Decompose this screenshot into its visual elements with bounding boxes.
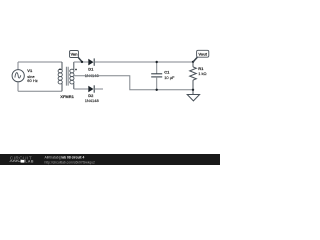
secondary lead top — [73, 62, 75, 70]
diode D1 — [88, 58, 94, 65]
primary winding — [58, 69, 62, 84]
node Van junction dot — [81, 61, 83, 63]
svg-text:C1: C1 — [164, 70, 170, 75]
svg-text:http://circuitlab.com/c6k97t9w: http://circuitlab.com/c6k97t9wkqu2 — [45, 160, 96, 164]
svg-text:LAB: LAB — [25, 159, 34, 163]
svg-text:10 µF: 10 µF — [164, 75, 175, 80]
svg-text:V1: V1 — [27, 68, 33, 73]
voltage source V1 — [12, 70, 24, 82]
junction dot C1 bottom — [156, 89, 158, 91]
node Van callout line — [78, 57, 82, 61]
wire: center tap to bottom rail — [74, 76, 193, 90]
svg-text:Van: Van — [70, 52, 78, 57]
wire: primary loop top — [18, 61, 62, 63]
secondary winding — [70, 69, 74, 84]
transformer XFMR1 — [58, 62, 77, 91]
svg-text:Vout: Vout — [198, 51, 207, 56]
footer bar — [0, 154, 220, 165]
primary phase dot — [59, 68, 61, 70]
svg-text:D1: D1 — [88, 66, 94, 71]
node Vout label box — [197, 50, 209, 57]
wire: D2 cathode stub (unconnected) — [94, 88, 103, 90]
diode D2 — [88, 85, 94, 92]
footer logo waveform — [9, 160, 20, 162]
core lines — [66, 67, 68, 86]
svg-text:1 kΩ: 1 kΩ — [198, 71, 206, 76]
node Van label box — [70, 51, 79, 58]
wire: primary loop bottom — [18, 90, 62, 92]
primary lead bottom — [61, 83, 63, 91]
footer logo chip box — [21, 160, 25, 163]
svg-text:XFMR1: XFMR1 — [60, 94, 74, 99]
node Vout junction dot — [192, 61, 194, 63]
svg-text:1N4148: 1N4148 — [85, 98, 100, 103]
wire: secondary top to D1 — [74, 61, 89, 63]
secondary lead bottom — [73, 83, 75, 89]
wire: D1 cathode to Vout node (top rail) — [94, 61, 193, 63]
ground — [187, 95, 199, 101]
wire: primary loop left (lower) — [17, 82, 19, 92]
primary lead top — [61, 62, 63, 70]
wire: primary loop left (upper) — [17, 62, 19, 70]
node Vout callout line — [193, 57, 197, 62]
svg-text:60 Hz: 60 Hz — [27, 78, 37, 83]
secondary phase dot — [75, 69, 77, 71]
junction dot R1 bottom rail — [192, 89, 194, 91]
svg-text:AliKhatab | lab 08 circuit 4: AliKhatab | lab 08 circuit 4 — [45, 156, 85, 160]
wire: secondary bottom to D2 — [74, 88, 89, 90]
capacitor C1 — [151, 62, 162, 90]
junction dot C1 top — [156, 61, 158, 63]
resistor R1 — [190, 62, 197, 95]
